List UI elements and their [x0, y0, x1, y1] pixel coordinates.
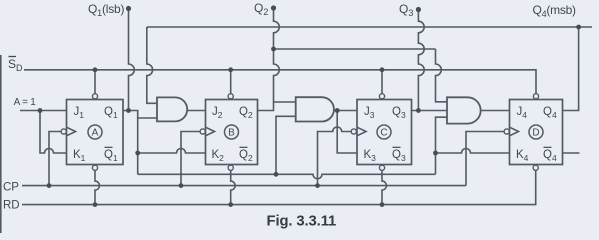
wire A branch down to K1 with hop over FF A clock drop	[40, 111, 67, 154]
wire K3 feed from J3 node down and right	[337, 111, 357, 154]
wire SD preset line (y=69.8) to FF D top bubble	[24, 70, 536, 94]
preset bubble FF D	[533, 94, 538, 99]
wire Q4 output up to feedback bus	[563, 27, 579, 111]
svg-text:Fig. 3.3.11: Fig. 3.3.11	[267, 214, 337, 230]
node Q1 output junction	[126, 108, 131, 113]
node CP junction FF C	[315, 183, 320, 188]
wire G2 bottom input from carry bus	[276, 116, 296, 174]
wire Q3 output to G3 middle input	[412, 110, 448, 112]
wire K2 feed (y=153) with hop over FF B clock drop	[138, 149, 206, 154]
clear bubble FF A	[92, 165, 97, 170]
state circle D	[529, 125, 543, 139]
wire FF A clear drop with hop over CP	[95, 170, 100, 204]
wire Q1 carry bus (y=174.3) with dip under FF C clock drop	[138, 174, 436, 179]
flip-flop C box U3	[357, 100, 412, 165]
AND gate G2	[296, 97, 334, 121]
wire SD stub to FF A preset bubble	[94, 70, 96, 94]
flip-flop D box U4	[510, 100, 563, 165]
clear bubble FF D	[533, 165, 538, 170]
node J3-K3 junction	[335, 108, 340, 113]
svg-text:CP: CP	[3, 182, 19, 194]
preset bubble FF C	[379, 94, 384, 99]
node SD junction FF A	[93, 67, 98, 72]
AND gate G1	[157, 97, 187, 121]
node RD junction FF A	[93, 202, 98, 207]
wire G3 bottom input from carry bus via K4 node	[436, 117, 448, 174]
wire A=1 input to J1	[20, 110, 67, 112]
wire RD line up to FF D clear bubble	[22, 170, 536, 204]
svg-text:Q1(lsb): Q1(lsb)	[88, 2, 124, 18]
wire FF D clock loop to CP end	[466, 132, 504, 186]
wire G2 output to J3	[334, 110, 357, 112]
AND gate G3	[447, 97, 481, 123]
wire SD stub to FF C preset bubble	[381, 70, 383, 94]
wire Q1 output to node and G1 bottom input	[123, 111, 157, 119]
svg-text:D: D	[532, 128, 539, 139]
clock bubble FF B	[200, 129, 205, 134]
node A input junction	[38, 108, 43, 113]
preset bubble FF A	[92, 94, 97, 99]
wire Q1 branch down to K2 node and carry bus corner	[137, 118, 139, 174]
clock bubble FF D	[504, 129, 509, 134]
wire SD stub to FF B preset bubble	[230, 70, 232, 94]
clock triangle FF C	[357, 127, 366, 136]
node SD junction FF B	[228, 67, 233, 72]
node SD junction FF C	[380, 67, 385, 72]
svg-text:B: B	[228, 128, 235, 139]
node CP junction FF B	[179, 183, 184, 188]
svg-text:Q4(msb): Q4(msb)	[533, 3, 577, 19]
wire FF B clock loop to CP	[181, 132, 200, 186]
wire V1 vertical Q4 down to G1 top input, hop over SD line	[147, 27, 157, 103]
clock triangle FF D	[510, 127, 519, 136]
wire FF C clock loop to CP with hop over K3 drop	[318, 127, 352, 186]
wire FF A clock loop to CP	[49, 132, 61, 186]
state circle B	[225, 125, 239, 139]
node Q3 output junction	[416, 108, 421, 113]
node Q3 label terminal	[416, 7, 421, 12]
wire K4 feed (y=153) with hop over FF D clock drop	[436, 149, 510, 154]
node Q1 label terminal	[126, 6, 131, 11]
wire G2 top input from Q2 drop	[274, 101, 296, 103]
node RD junction FF B	[228, 202, 233, 207]
wire G1 output to J2	[187, 110, 205, 112]
wire Q4 feedback bus (top, y=27) from corner above G1 to right edge	[147, 26, 592, 28]
wire Q2 bus (y=49) to AND3 top input	[274, 48, 436, 50]
wire Q3 label drop (x=418.4) hops Q4 bus, Q2 bus and SD line	[418, 10, 424, 111]
svg-text:C: C	[380, 128, 387, 139]
flip-flop A box U1	[67, 100, 124, 165]
wire CP line	[22, 185, 466, 187]
wire FF B clear drop with hop over CP	[231, 170, 236, 204]
flip-flop B box U2	[206, 100, 258, 165]
clock triangle FF A	[67, 127, 76, 136]
wire FF C clear drop with hop over CP	[382, 170, 387, 204]
node carry bus junction at G2	[274, 172, 279, 177]
state circle C	[377, 125, 391, 139]
node K2 junction	[135, 151, 140, 156]
node Q2 junction on Q2 bus	[271, 47, 276, 52]
wire G3 output to J4	[481, 110, 510, 112]
wire V2 vertical Q2 down to G3 top input, hop over SD line	[436, 49, 448, 102]
preset bubble FF B	[228, 94, 233, 99]
clear bubble FF B	[228, 165, 233, 170]
clear bubble FF C	[379, 165, 384, 170]
wire Q1 label drop (x=128.5), hop over SD line	[129, 9, 135, 111]
clock bubble FF C	[351, 129, 356, 134]
node K4 junction	[433, 151, 438, 156]
svg-text:A: A	[92, 128, 99, 139]
node Q4 junction on feedback bus	[576, 25, 581, 30]
state circle A	[88, 125, 102, 139]
node RD junction FF C	[380, 202, 385, 207]
wire Q2 label drop (x=273.5) hops Q4 bus and SD line, tee to G2 top input, corner to Q2 pin	[258, 8, 280, 111]
node CP junction FF A	[47, 183, 52, 188]
svg-text:RD: RD	[3, 200, 20, 212]
wire Q4bar stub	[563, 152, 580, 154]
svg-text:A = 1: A = 1	[14, 97, 37, 108]
node Q2 label terminal	[271, 5, 276, 10]
clock bubble FF A	[61, 129, 66, 134]
page left border mark	[0, 55, 2, 233]
clock triangle FF B	[206, 127, 215, 136]
